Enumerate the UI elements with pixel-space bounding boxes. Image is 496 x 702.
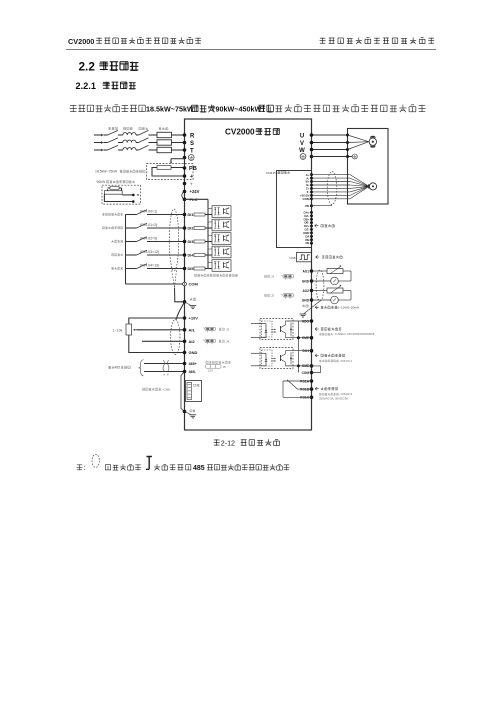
svg-text:V: V: [300, 141, 304, 147]
svg-text:T: T: [190, 148, 194, 154]
terminal (+) bus: [183, 181, 193, 186]
terminal COM: [126, 282, 199, 287]
svg-text:J3: J3: [226, 327, 230, 331]
svg-text:COM: COM: [189, 282, 199, 287]
terminal PE ground (input side): [183, 155, 194, 161]
svg-text:-: -: [138, 200, 139, 204]
AO1 load potentiometer: [312, 265, 352, 274]
shield ellipse around analog wires: [171, 320, 180, 355]
jumper J4 note (AI2 V/I): [203, 339, 230, 344]
terminal OB- (divided freq output): [304, 221, 313, 225]
svg-text:(F04.03=12): (F04.03=12): [140, 250, 159, 254]
svg-text:AI1: AI1: [189, 327, 196, 332]
input filter/fuse FU phase T: [157, 147, 172, 152]
header right: company name: [320, 37, 435, 43]
output wire W to motor: [312, 142, 369, 151]
shield ellipse around DI wires: [169, 209, 178, 288]
wire to terminal T: [172, 149, 185, 151]
svg-text:PB: PB: [189, 166, 197, 172]
AO2 meter: [312, 291, 352, 304]
svg-text:CV2000: CV2000: [225, 128, 255, 137]
svg-text:GND: GND: [189, 350, 198, 355]
svg-text:U: U: [300, 133, 304, 139]
terminal HDO @321: [302, 319, 313, 323]
terminal Z-: [307, 190, 313, 194]
annotation: divided frequency output: [315, 224, 335, 227]
mains input arrow phase S: [94, 141, 108, 144]
terminal DA (divided freq output): [305, 234, 313, 238]
terminal AI1: [183, 327, 196, 332]
terminal AO2 @290: [302, 289, 313, 293]
terminal A-: [306, 176, 313, 180]
PG wire Z-: [312, 186, 370, 192]
terminal RO1B: [300, 387, 313, 391]
terminal GND: [183, 350, 198, 355]
jumper wire between +24V and PLC: [182, 192, 185, 200]
motor ground wire + earth: [312, 154, 358, 159]
terminal R: [183, 133, 195, 139]
svg-text:R: R: [190, 133, 195, 139]
wire + function label (F04.02=9): [140, 237, 185, 242]
terminal GND @300: [302, 298, 313, 302]
potentiometer 1~10k: [113, 318, 185, 353]
body paragraph: [70, 104, 426, 113]
svg-text:(F04.01=2): (F04.01=2): [140, 223, 157, 227]
svg-text:DI1: DI1: [188, 212, 195, 217]
terminal OZ- (divided freq output): [305, 228, 313, 232]
common wire CME to CME/COM: [297, 321, 300, 373]
PG wire +5/12V: [312, 186, 370, 195]
terminal DI2: [183, 226, 195, 231]
contactor KM phase T: [139, 145, 158, 150]
terminal DI5: [183, 266, 195, 271]
optocoupler DI2 isolation: [208, 219, 231, 231]
svg-text:W: W: [299, 148, 305, 154]
terminal PE (PG shield): [305, 204, 313, 208]
PG shield drain wire: [312, 205, 332, 206]
external braking resistor: [108, 187, 122, 191]
svg-text:AI2: AI2: [189, 339, 196, 344]
motor M: [369, 136, 376, 148]
PG wire B+: [312, 182, 370, 187]
terminal DI4: [183, 253, 195, 258]
component labels above input row: [108, 127, 168, 130]
terminal B-: [306, 183, 313, 187]
AC reactor L phase R: [123, 133, 139, 135]
svg-text:COM: COM: [302, 371, 310, 375]
svg-text:(F04.04=13): (F04.04=13): [140, 264, 159, 268]
header rule: [66, 48, 436, 50]
inverter title CV2000: [225, 128, 280, 137]
input filter/fuse FU phase R: [157, 132, 172, 137]
note line: [77, 454, 290, 472]
contactor KM phase R: [139, 130, 158, 135]
svg-text:18.5kW~75kW: 18.5kW~75kW: [95, 170, 118, 174]
terminal RO1C: [300, 396, 313, 400]
jumper J3 note (AI1 V/I): [203, 327, 230, 332]
optocoupler HDO output: [251, 319, 312, 340]
terminal OZ+ (divided freq output): [304, 224, 313, 228]
switch S4 input DI4: [111, 250, 147, 256]
svg-text:AO2: AO2: [302, 289, 309, 293]
svg-text:HDO: HDO: [302, 319, 310, 323]
bottom PE terminal + earth: [183, 410, 197, 418]
DI shield drain wire to earth: [175, 288, 187, 304]
svg-text:485: 485: [115, 366, 121, 370]
wire + function label (F04.01=2): [140, 223, 185, 228]
terminal AI2: [183, 339, 196, 344]
terminal DO1 @350: [302, 349, 313, 353]
terminal 485-: [183, 370, 197, 374]
PG card label CN3: [266, 171, 290, 175]
svg-text:CN8: CN8: [193, 384, 200, 388]
svg-text:CV2000: CV2000: [68, 37, 94, 46]
dashed box: built-in braking unit 18.5-75kW: [147, 164, 194, 180]
jumper CME-COM: [312, 366, 321, 373]
svg-text:90kW~450kW: 90kW~450kW: [216, 104, 262, 113]
annotation: open collector output: [315, 354, 353, 363]
note under DI5 (sink wiring): [194, 274, 237, 277]
heading 2.2: [79, 60, 139, 74]
switch S2 input DI2: [102, 223, 147, 229]
wire to terminal S: [172, 142, 185, 144]
svg-text:+: +: [190, 174, 193, 180]
terminal CME @365: [302, 364, 313, 368]
PG card box CN3: [277, 171, 312, 248]
jumper J1 note (AO1 V/I): [264, 274, 293, 279]
communication expansion connector CN8: [186, 381, 202, 402]
breaker QF phase R: [108, 130, 123, 135]
svg-text:0~10V/0~20mA: 0~10V/0~20mA: [338, 306, 360, 310]
optocoupler DI1 isolation: [208, 206, 231, 218]
shield drain to analog ellipse: [176, 302, 185, 320]
terminal W: [299, 148, 313, 154]
optocoupler DI3 isolation: [208, 233, 231, 245]
svg-text:2.2.1: 2.2.1: [76, 81, 96, 91]
svg-text:OE: OE: [305, 241, 309, 245]
heading 2.2.1: [76, 81, 136, 91]
DI common rail wire (left): [125, 215, 127, 285]
label 90kW external braking unit: [97, 180, 135, 184]
input resistor R-DI4: [194, 254, 212, 257]
terminal PE output side: [300, 154, 313, 160]
svg-text:1~10k: 1~10k: [113, 328, 123, 332]
terminal A+: [306, 173, 313, 177]
terminal COM: [303, 197, 313, 201]
dashed box: external braking unit (90kW and above): [102, 185, 141, 204]
braking resistor RB: [152, 166, 185, 176]
terminal +10V: [183, 316, 199, 321]
wire 485- down to PE: [181, 372, 185, 412]
wire to terminal R: [172, 134, 185, 136]
terminal CME @337: [302, 336, 313, 340]
svg-text:CN5: CN5: [289, 256, 295, 260]
svg-text:90kW: 90kW: [97, 180, 106, 184]
svg-text:GND: GND: [302, 279, 310, 283]
input resistor R-DI2: [194, 227, 212, 230]
svg-text:DI2: DI2: [188, 226, 195, 231]
svg-text:+10V: +10V: [189, 316, 199, 321]
wire + function label (F04.04=13): [140, 264, 185, 269]
encoder PG: [368, 183, 377, 190]
svg-text:485: 485: [193, 465, 205, 472]
annotation: high speed pulse interface: [316, 255, 343, 258]
annotation: relay output: [315, 387, 353, 401]
terminal RO1A: [300, 379, 313, 383]
terminal T: [183, 148, 194, 154]
wire + function label (F04.03=12): [140, 250, 185, 255]
optocoupler DO1 output: [251, 348, 312, 369]
svg-text:120: 120: [208, 369, 213, 373]
svg-text:J2: J2: [271, 293, 275, 297]
PG wire A+: [312, 175, 370, 187]
motor cable box: [348, 129, 389, 205]
terminal B+: [306, 180, 313, 184]
svg-text:S: S: [190, 141, 194, 147]
svg-text:DI3: DI3: [188, 239, 195, 244]
optocoupler DI5 isolation: [208, 260, 231, 272]
svg-text:DI5: DI5: [188, 266, 195, 271]
input resistor R-DI5: [194, 267, 212, 270]
AI1 wiper wire: [133, 329, 184, 331]
PG wire Z+: [312, 186, 370, 188]
svg-text:CN8: CN8: [164, 387, 170, 391]
wire + function label (F04.00=1): [140, 210, 185, 215]
485 label + brace: [108, 360, 143, 376]
svg-text:AO1: AO1: [302, 269, 309, 273]
terminal +5/12V: [300, 194, 313, 198]
label 18.5-75kW built-in braking unit: [95, 170, 145, 174]
AI2 wire: [142, 340, 185, 342]
terminal AO1 @271: [302, 269, 313, 273]
svg-text:: 0~50kHz, F05.00/03/05/06/08/: : 0~50kHz, F05.00/03/05/06/08/09: [334, 332, 375, 336]
PG wire COM: [312, 186, 370, 198]
terminal DI1: [183, 212, 195, 217]
terminal +24V: [183, 189, 200, 194]
terminal PLC: [183, 197, 198, 202]
annotation: analog output 0-10V/0-20mA: [315, 306, 360, 310]
optocoupler DI4 isolation: [208, 246, 231, 258]
mains input arrow phase T: [94, 149, 108, 152]
485 termination resistor note: [206, 361, 231, 373]
shield ellipse around PG cable: [327, 172, 337, 205]
svg-text:485-: 485-: [189, 370, 197, 374]
svg-text:DI4: DI4: [188, 253, 195, 258]
wire from ground terminal w/ arrow into brake-resistor box: [170, 159, 185, 164]
terminal DB (divided freq output): [305, 238, 313, 242]
switch S5 input DI5: [111, 264, 147, 270]
svg-text:(F04.02=9): (F04.02=9): [140, 237, 157, 241]
485+ wire + twisted pair symbol: [144, 360, 185, 375]
svg-text:18.5kW~75kW: 18.5kW~75kW: [146, 104, 194, 113]
terminal Z+: [306, 187, 313, 191]
jumper J2 note (AO2 V/I): [264, 293, 293, 298]
output wire U to motor: [312, 134, 369, 142]
svg-text:250VAC/3A, 30VDC/3A: 250VAC/3A, 30VDC/3A: [319, 397, 348, 401]
svg-text:+: +: [190, 181, 193, 186]
output wire V to motor: [312, 141, 369, 144]
terminal OA+ (divided freq output): [303, 211, 312, 215]
svg-text:GND: GND: [302, 298, 310, 302]
switch S1 input DI1: [102, 210, 147, 216]
PLC to optocoupler rail wire: [185, 199, 209, 268]
svg-text:CN3:PG: CN3:PG: [266, 171, 278, 175]
shield label + earth (DI cable): [185, 298, 197, 309]
breaker QF phase T: [108, 145, 123, 150]
PG wire A-: [312, 178, 370, 186]
svg-text:(F04.00=1): (F04.00=1): [140, 210, 157, 214]
terminal plus (braking): [183, 174, 193, 180]
svg-text:CME: CME: [302, 336, 309, 340]
input filter/fuse FU phase S: [157, 140, 172, 145]
terminal DI3: [183, 239, 195, 244]
input resistor R-DI1: [194, 213, 212, 216]
AC reactor L phase S: [123, 140, 139, 142]
contactor KM phase S: [139, 138, 158, 143]
AO1 meter: [312, 271, 352, 285]
mains input arrow phase R: [94, 134, 108, 137]
terminal V: [300, 141, 313, 147]
AO2 load potentiometer: [312, 285, 352, 294]
switch S3 input DI3: [111, 237, 147, 243]
PG wire B-: [312, 185, 370, 186]
AO shield label + earth: [300, 301, 320, 317]
svg-text:485+: 485+: [189, 362, 197, 366]
terminal OA- (divided freq output): [304, 214, 313, 218]
svg-text:2-12: 2-12: [221, 439, 235, 447]
terminal GND (divided freq output): [303, 231, 313, 235]
svg-text:PE: PE: [305, 204, 309, 208]
svg-text:J5: J5: [223, 365, 227, 369]
comm port label: [142, 387, 170, 391]
breaker QF phase S: [108, 138, 123, 143]
svg-text:, F05.01=1: , F05.01=1: [339, 359, 352, 363]
svg-text:J1: J1: [271, 274, 275, 278]
external braking unit box: [104, 191, 122, 195]
terminal OB+ (divided freq output): [303, 217, 312, 221]
shield ellipse around AO wires: [316, 270, 324, 301]
svg-text::: :: [84, 465, 86, 472]
terminal COM @372: [302, 371, 314, 375]
braking unit output wires to (+)(-): [104, 194, 138, 204]
annotation: high-speed pulse output: [315, 327, 375, 336]
svg-text:, F05.02=2: , F05.02=2: [339, 392, 352, 396]
svg-text:COM: COM: [303, 197, 311, 201]
relay contact RO1: [283, 380, 312, 398]
high speed pulse connector CN5: [289, 253, 311, 262]
AC reactor L phase T: [123, 148, 139, 150]
input resistor R-DI3: [194, 240, 212, 243]
inverter main box U0 CV2000: [185, 119, 312, 430]
terminal U: [300, 133, 313, 139]
figure caption 2-12: [214, 439, 280, 447]
terminal GND @281: [302, 279, 313, 283]
svg-text:2.2: 2.2: [79, 60, 96, 74]
svg-text:J4: J4: [226, 339, 230, 343]
terminal 485+: [183, 362, 197, 366]
terminal S: [183, 141, 194, 147]
header left: CV2000 series manual title: [68, 37, 201, 46]
terminal PB: [183, 166, 197, 172]
terminal OE (divided freq output): [305, 241, 313, 245]
svg-text:+24V: +24V: [190, 189, 200, 194]
